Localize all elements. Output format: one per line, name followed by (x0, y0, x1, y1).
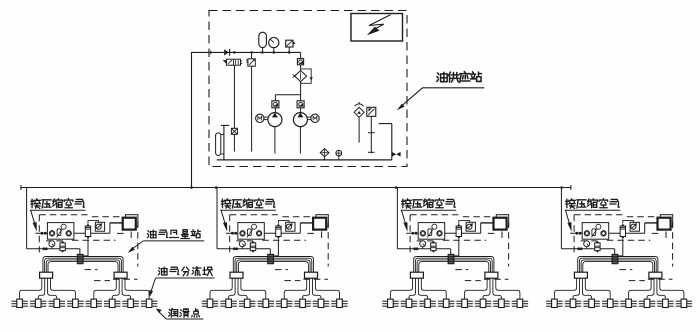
accumulator A1 (259, 32, 267, 52)
distributor block right (subsystem 2) (305, 272, 318, 278)
distributor block right (subsystem 4) (649, 272, 662, 278)
label text 接压缩空气 (connect compressed air) subsystem 3 (402, 199, 456, 209)
oil-gas mixing block (subsystem 3) (448, 254, 454, 263)
oil-gas pipe bundle left (subsystem 4) (578, 257, 612, 273)
dashed enclosure of satellite station 3 (410, 215, 509, 281)
air pressure switch (subsystem 4) (623, 221, 640, 232)
oil-gas pipe bundle right (subsystem 2) (274, 257, 314, 273)
air filter-regulator unit box (subsystem 2) (238, 223, 264, 240)
control box (subsystem 2) (313, 215, 328, 230)
distributor block left (subsystem 3) (410, 272, 423, 278)
lubrication point 1.8 (141, 299, 157, 307)
check valve V1 on main line (224, 49, 229, 56)
drain coupling (diamond) (320, 149, 329, 160)
oil supply branch line (subsystem 3) (413, 247, 418, 250)
oil injector cylinder (subsystem 4) (618, 224, 626, 256)
oil injector cylinder (subsystem 2) (274, 224, 282, 256)
label text 接压缩空气 (connect compressed air) subsystem 4 (566, 199, 620, 209)
lubrication point 2.3 (239, 299, 255, 307)
wire oil line down to mixing block (subsystem 2) (269, 249, 271, 255)
label text 润滑点 (lubrication point) (169, 309, 200, 318)
pump P2 (293, 108, 307, 127)
air filter-regulator unit box (subsystem 3) (418, 223, 445, 240)
lubrication point 1.5 (86, 299, 102, 307)
oil injector cylinder (subsystem 1) (83, 224, 91, 256)
oil-gas mixing block (subsystem 1) (77, 254, 83, 263)
check valve CV2 (297, 101, 304, 108)
tank drain valve (392, 152, 401, 157)
lubrication point 2.5 (276, 299, 292, 307)
lubrication point 2.8 (331, 299, 347, 307)
leader arrow for 接压缩空气 (subsystem 2) (220, 210, 276, 231)
air filter-regulator unit box (subsystem 4) (582, 223, 609, 240)
label text 油气分流块 (oil-gas divider block) (158, 267, 212, 276)
distributor block left (subsystem 2) (230, 272, 243, 278)
lubrication point 3.2 (401, 299, 417, 307)
compressed air inlet line (subsystem 3) (406, 232, 481, 235)
label text 油气卫星站 (oil-gas satellite station) (147, 230, 200, 239)
lubrication point 1.7 (122, 299, 138, 307)
oil pressure gauge (subsystem 3) (420, 241, 426, 249)
control box (subsystem 1) (123, 215, 138, 230)
lubrication point 4.7 (657, 299, 673, 307)
oil pressure gauge (subsystem 4) (584, 241, 590, 249)
lubrication point 4.2 (565, 299, 581, 307)
motor M2 (307, 114, 319, 122)
control box (subsystem 3) (494, 215, 509, 230)
leader arrow for 润滑点 (156, 309, 204, 320)
distributor block left (subsystem 4) (574, 272, 587, 278)
oil-gas mixing block (subsystem 4) (612, 254, 618, 263)
main oil bus line (21, 185, 571, 190)
dashed enclosure of satellite station 2 (230, 215, 329, 281)
label text 油供应站 (oil supply station) (437, 72, 482, 83)
oil supply branch line (subsystem 4) (577, 247, 582, 250)
lubrication point 4.1 (546, 299, 562, 307)
oil-gas pipe bundle right (subsystem 1) (83, 257, 123, 273)
pump P1 (268, 108, 282, 127)
lubrication point 4.6 (639, 299, 655, 307)
oil lubricator cylinder (subsystem 4) (595, 241, 600, 253)
air pressure switch (subsystem 3) (459, 221, 476, 232)
dashed enclosure of satellite station 1 (39, 215, 138, 281)
bus junction nodes (190, 186, 563, 189)
leader arrow for 油气分流块 (149, 278, 215, 297)
feed wire from bus (subsystem 1) (27, 188, 80, 249)
lubrication point 3.5 (456, 299, 472, 307)
wire air line to control box (subsystem 2) (300, 223, 313, 233)
feed wire from bus (subsystem 2) (217, 188, 270, 249)
lubrication point 1.2 (30, 299, 46, 307)
wire: main pressure line to bus (192, 52, 301, 188)
lubrication point 2.7 (313, 299, 329, 307)
oil pressure gauge (subsystem 2) (239, 241, 245, 249)
oil injector cylinder (subsystem 3) (454, 224, 462, 256)
motor M1 (256, 114, 268, 122)
wire oil line down to mixing block (subsystem 1) (79, 249, 81, 255)
lubrication point 4.3 (583, 299, 599, 307)
wire air line to control box (subsystem 1) (110, 223, 123, 233)
oil-gas pipe bundle right (subsystem 4) (618, 257, 658, 273)
feed wire from bus (subsystem 3) (397, 188, 450, 249)
leader arrow for 接压缩空气 (subsystem 4) (565, 210, 621, 231)
oil-gas pipe bundle left (subsystem 2) (233, 257, 267, 273)
lubrication point 1.6 (104, 299, 120, 307)
compressed air inlet line (subsystem 2) (226, 232, 300, 235)
lubrication point 3.1 (382, 299, 398, 307)
lubrication point 3.4 (438, 299, 454, 307)
wire air line to control box (subsystem 4) (645, 223, 658, 233)
dashed enclosure of satellite station 4 (574, 215, 673, 281)
wire oil line down to mixing block (subsystem 4) (614, 249, 616, 255)
oil lubricator cylinder (subsystem 2) (250, 241, 255, 253)
oil supply station dashed enclosure (209, 11, 407, 167)
wire main line down to filter stack (300, 52, 302, 58)
suction strainer (square with X) (231, 128, 237, 134)
lubrication point 4.8 (676, 299, 692, 307)
oil lubricator cylinder (subsystem 1) (60, 241, 65, 253)
branch pipes to lube points (subsystem 2) (210, 278, 340, 299)
pressure switch PS1 (286, 40, 296, 53)
filler / float switch on tank (367, 107, 376, 153)
drain coupling (circle) (336, 150, 342, 160)
oil supply branch line (subsystem 1) (43, 247, 48, 250)
leader arrow for 接压缩空气 (subsystem 1) (30, 210, 86, 231)
compressed air inlet line (subsystem 4) (570, 232, 645, 235)
leader arrow for 油气卫星站 (128, 241, 205, 253)
oil pressure gauge (subsystem 1) (49, 241, 55, 249)
pressure relief valve RV1 (246, 59, 255, 66)
pump suction pipes into tank (275, 127, 301, 154)
compressed air inlet line (subsystem 1) (35, 232, 110, 235)
distributor block right (subsystem 1) (114, 272, 127, 278)
branch pipes to lube points (subsystem 4) (554, 278, 684, 299)
tank level gauge (216, 133, 224, 156)
air pressure switch (subsystem 2) (278, 221, 295, 232)
wire RV1 drain to tank (251, 52, 253, 151)
oil-gas pipe bundle left (subsystem 1) (43, 257, 77, 273)
wire filter to pump junction (275, 82, 300, 101)
label text 接压缩空气 (connect compressed air) subsystem 1 (31, 199, 85, 209)
check valve CV3 (297, 59, 303, 65)
air filter-regulator unit box (subsystem 1) (47, 223, 74, 240)
oil lubricator cylinder (subsystem 3) (431, 241, 436, 253)
lubrication point 4.5 (620, 299, 636, 307)
oil supply branch line (subsystem 2) (233, 247, 238, 250)
oil-gas pipe bundle left (subsystem 3) (414, 257, 448, 273)
lubrication point 1.1 (11, 299, 27, 307)
lubrication point 1.3 (49, 299, 65, 307)
electric control box with lightning symbol (351, 14, 403, 42)
distributor block right (subsystem 3) (485, 272, 498, 278)
feed wire from bus (subsystem 4) (561, 188, 614, 249)
control box (subsystem 4) (658, 215, 673, 230)
lubrication point 2.6 (294, 299, 310, 307)
air breather on tank (354, 102, 364, 143)
lubrication point 2.1 (202, 299, 218, 307)
oil-gas pipe bundle right (subsystem 3) (454, 257, 494, 273)
lubrication point 2.4 (258, 299, 274, 307)
wire oil line down to mixing block (subsystem 3) (450, 249, 452, 255)
lubrication point 3.3 (419, 299, 435, 307)
lubrication point 4.4 (602, 299, 618, 307)
check valve CV1 (272, 101, 279, 108)
lubrication point 3.8 (512, 299, 528, 307)
lubrication point 2.2 (220, 299, 236, 307)
solenoid directional valve DV1 (223, 59, 243, 65)
air pressure switch (subsystem 1) (88, 221, 105, 232)
branch pipes to lube points (subsystem 3) (390, 278, 520, 299)
pressure gauge PG1 (269, 38, 279, 53)
filter F1 (diamond) with bypass check (293, 69, 313, 83)
lubrication point 1.4 (67, 299, 83, 307)
wire DV1 to strainer (233, 65, 235, 128)
leader arrow for 接压缩空气 (subsystem 3) (401, 210, 457, 231)
oil tank outline (217, 124, 392, 160)
distributor block left (subsystem 1) (40, 272, 53, 278)
junction ticks on main line (211, 51, 291, 55)
wire air line to control box (subsystem 3) (481, 223, 494, 233)
lubrication point 3.6 (475, 299, 491, 307)
leader arrow for 油供应站 (397, 88, 485, 111)
branch pipes to lube points (subsystem 1) (20, 278, 150, 299)
oil-gas mixing block (subsystem 2) (268, 254, 274, 263)
lubrication point 3.7 (493, 299, 509, 307)
label text 接压缩空气 (connect compressed air) subsystem 2 (221, 199, 275, 209)
wire strainer into tank (233, 134, 235, 151)
